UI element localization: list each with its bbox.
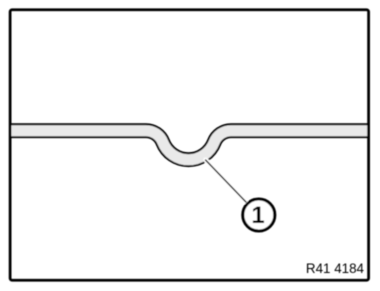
leader line to item 1 xyxy=(205,160,246,203)
callout circle 1 xyxy=(243,199,275,231)
trim strip (panel edge with channel dip) : black outline pass xyxy=(11,131,368,160)
trim strip grey core xyxy=(11,131,368,160)
svg-text:1: 1 xyxy=(251,202,264,229)
leader line white halo xyxy=(206,160,247,202)
svg-text:R41 4184: R41 4184 xyxy=(306,261,365,276)
